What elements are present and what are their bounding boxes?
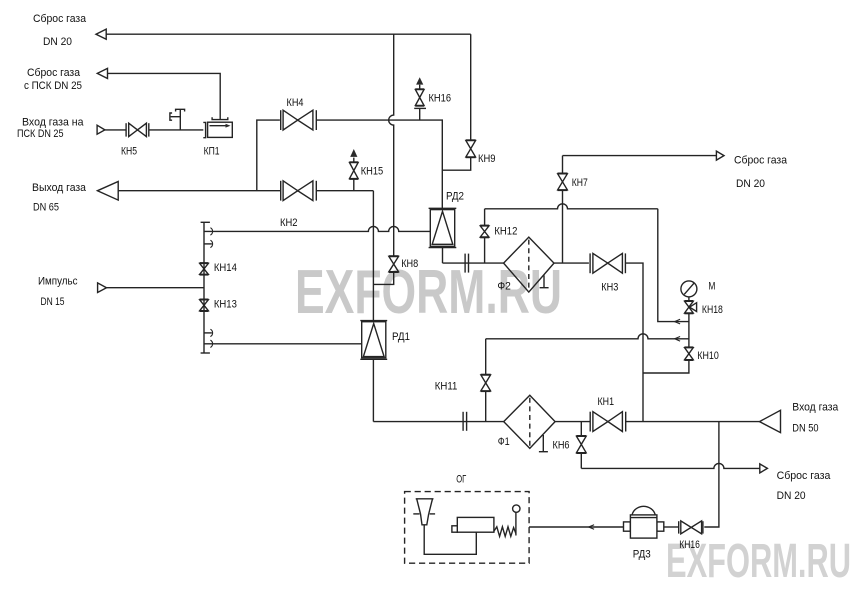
svg-text:DN 65: DN 65	[33, 202, 59, 214]
svg-text:Сброс газа: Сброс газа	[33, 13, 87, 25]
svg-text:М: М	[708, 281, 715, 293]
svg-text:КН4: КН4	[287, 97, 304, 109]
filter Ф2	[504, 237, 554, 292]
valve КН5	[126, 123, 149, 136]
svg-text:РД2: РД2	[446, 190, 464, 202]
odorizer cylinder	[452, 517, 494, 532]
port arrow: Выход газа DN65	[98, 182, 119, 201]
insulating joint lower	[463, 412, 467, 431]
valve КН15 vent	[349, 149, 358, 191]
wire: header y=208.8 with jog over x=562.5	[485, 204, 658, 209]
valve КН16 vent (top)	[414, 77, 426, 120]
port arrow: Сброс газа DN20 bottom right	[760, 464, 768, 473]
valve КН4	[281, 110, 317, 130]
svg-text:КН6: КН6	[553, 439, 570, 451]
port arrow: Сброс газа с ПСК	[97, 68, 107, 78]
port arrow: Импульс DN15	[98, 283, 107, 293]
manometer М	[681, 281, 697, 301]
wire: impulse inlet y=287.7	[107, 287, 205, 289]
flow tick on y=338.8	[675, 337, 681, 342]
wire: bypass left vertical x=256.8	[257, 120, 280, 191]
wire: vertical x=470.7 down to КН9	[470, 34, 472, 140]
wire: top vent header y=34	[106, 33, 471, 35]
regulator РД1	[360, 321, 387, 422]
svg-text:Сброс газа: Сброс газа	[27, 67, 81, 79]
svg-text:ОГ: ОГ	[456, 473, 466, 485]
wire: КН9 bottom stem and elbow to x=442.3	[442, 158, 470, 171]
wire: КН10 bottom elbow to x=643	[643, 360, 689, 373]
wire: upper header y=120.1 КН4 to РД2 riser	[316, 120, 442, 208]
svg-text:Импульс: Импульс	[38, 276, 78, 288]
wire: Сброс с ПСК header y=73.4 down to КП1	[108, 73, 221, 119]
svg-text:Вход газа на: Вход газа на	[22, 116, 84, 128]
odorizer spring and stem	[494, 505, 520, 537]
svg-text:КН13: КН13	[214, 299, 237, 311]
svg-text:КН18: КН18	[702, 304, 723, 316]
svg-text:РД1: РД1	[392, 331, 410, 343]
wire: РД3 to КН16	[664, 526, 679, 528]
stub y=332.9	[204, 329, 213, 336]
port arrow: Вход газа на ПСК	[97, 125, 105, 134]
svg-text:с ПСК DN 25: с ПСК DN 25	[24, 80, 82, 92]
svg-text:Сброс газа: Сброс газа	[734, 155, 788, 167]
svg-text:Ф2: Ф2	[497, 280, 511, 292]
valve КН18 (three-way)	[684, 301, 696, 314]
valve КН14	[200, 263, 209, 275]
valve КН1	[590, 412, 626, 432]
port arrow: Сброс газа DN20 top right	[716, 151, 724, 160]
flow tick on y=321.6	[675, 319, 681, 324]
svg-text:РД3: РД3	[633, 549, 651, 561]
valve КН13	[200, 299, 209, 311]
valve КН10	[684, 347, 693, 360]
svg-text:Сброс газа: Сброс газа	[777, 470, 832, 482]
wire: РД1 riser x=373.4	[372, 191, 374, 321]
port arrow: Вход газа DN50	[760, 410, 781, 432]
wire: vertical x=657.8 elbow to КН18 stem	[658, 209, 689, 322]
svg-text:КН10: КН10	[697, 350, 719, 362]
svg-text:КН8: КН8	[401, 258, 418, 270]
svg-text:DN 15: DN 15	[41, 296, 65, 308]
vent stack symbol near КП1	[170, 109, 185, 130]
svg-text:КН12: КН12	[494, 226, 517, 238]
wire: КН8 bottom to РД1 riser	[373, 272, 393, 284]
wire: vertical x=393.7 from top header down to КН8, jog over y=120.1	[389, 34, 394, 256]
svg-text:DN 20: DN 20	[777, 490, 806, 502]
wire: КН3 out, corner down x=643 to lower pipe	[625, 263, 643, 422]
wire: impulse to РД1 y=343.8	[204, 340, 362, 347]
svg-text:Выход газа: Выход газа	[32, 182, 87, 194]
wire: drop leg x=718.9 to РД3 line	[704, 422, 719, 527]
svg-text:КН3: КН3	[601, 281, 618, 293]
wire: КН7 riser x=562.5	[562, 156, 564, 264]
valve КН11	[481, 339, 491, 422]
svg-text:КН15: КН15	[361, 166, 384, 178]
svg-text:КН9: КН9	[478, 153, 496, 165]
filter Ф1	[504, 395, 555, 451]
wire: inlet to КН5	[105, 129, 126, 131]
wire: impulse to РД2 y=231.4 with jogs	[204, 226, 430, 231]
svg-text:DN 20: DN 20	[736, 178, 765, 190]
svg-text:Ф1: Ф1	[498, 436, 510, 448]
svg-text:КН14: КН14	[214, 262, 237, 274]
valve КН8	[389, 256, 399, 272]
svg-text:EXFORM.RU: EXFORM.RU	[295, 258, 562, 327]
wire: vent line y=155.6 to right arrow	[563, 155, 717, 157]
svg-text:Вход газа: Вход газа	[792, 402, 839, 414]
wire: Ф1 to КН1	[555, 421, 590, 423]
valve КН7	[558, 173, 568, 190]
wire: КН5 to КП1	[149, 129, 204, 131]
odorizer piping loop	[424, 525, 476, 555]
port arrow: Сброс газа DN20 top left	[96, 29, 106, 39]
wire: Ф2 to КН3	[554, 262, 589, 264]
wire: outlet line y=190.7 to КН2	[118, 190, 281, 192]
wire: mid pipe РД2 to Ф2	[443, 262, 504, 264]
svg-text:КН5: КН5	[121, 145, 137, 157]
valve КН6 bypass	[576, 422, 586, 469]
valve КН12	[480, 209, 489, 263]
wire: КН1 to inlet arrow	[626, 421, 760, 423]
impulse manifold x=204	[201, 222, 210, 353]
wire: odorizer to РД3 with flow tick	[529, 526, 623, 528]
svg-text:DN 20: DN 20	[43, 36, 72, 48]
valve КН3	[590, 253, 625, 273]
svg-text:КП1: КП1	[204, 145, 220, 157]
valve КН2	[281, 181, 317, 201]
insulating joint upper	[465, 254, 468, 273]
svg-text:КН1: КН1	[598, 396, 615, 408]
stub y=243.9	[204, 240, 213, 247]
svg-text:DN 50: DN 50	[792, 423, 818, 435]
svg-text:КН11: КН11	[435, 381, 458, 393]
wire: КН18 stem down to КН10	[688, 314, 690, 348]
wire: outlet line from КН2 to riser corner	[316, 190, 373, 192]
valve КП1 (safety shutoff)	[203, 117, 232, 138]
svg-text:КН16: КН16	[679, 539, 700, 551]
svg-text:КН2: КН2	[280, 217, 298, 229]
svg-text:КН7: КН7	[572, 177, 588, 189]
wire: blowdown line y=468.4 with jog over x=718.9	[581, 463, 760, 468]
regulator РД3	[624, 506, 664, 538]
valve КН16 (bottom)	[679, 521, 703, 534]
odorizer ОГ dashed box	[405, 492, 529, 564]
valve КН9	[466, 140, 476, 158]
odorizer funnel	[413, 499, 435, 525]
svg-text:ПСК DN 25: ПСК DN 25	[17, 128, 64, 140]
wire: lower main pipe y=421.6	[373, 421, 503, 423]
regulator РД2	[429, 208, 457, 263]
svg-text:КН16: КН16	[429, 93, 452, 105]
wire: impulse line y=338.8 from КН11 corner to КН18 stem with jog at x=643	[486, 334, 689, 339]
